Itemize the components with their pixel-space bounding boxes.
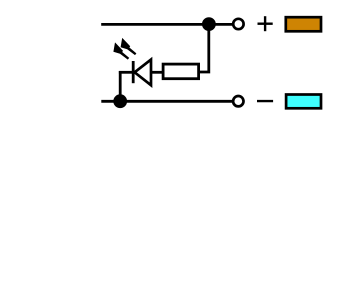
- wire LED down to bottom junction: [119, 71, 122, 101]
- wire bottom bus: [101, 100, 238, 103]
- plus sign: [258, 16, 273, 31]
- LED D1 cathode bar: [132, 61, 135, 83]
- LED light arrow 1: [113, 42, 129, 59]
- junction dot top: [202, 17, 216, 31]
- terminal circle +: [233, 19, 243, 29]
- cyan terminal marker: [286, 95, 321, 109]
- minus sign: [257, 100, 273, 102]
- orange terminal marker: [286, 17, 321, 31]
- wire LED anode lead: [119, 71, 133, 74]
- resistor R1: [163, 64, 199, 79]
- terminal circle -: [233, 96, 243, 106]
- LED D1 triangle: [135, 60, 151, 86]
- LED light arrow 2: [121, 38, 137, 55]
- wire from top junction down to resistor: [199, 24, 209, 72]
- wire resistor to LED: [150, 71, 163, 74]
- junction dot bottom: [113, 94, 127, 108]
- wire top bus: [101, 23, 238, 26]
